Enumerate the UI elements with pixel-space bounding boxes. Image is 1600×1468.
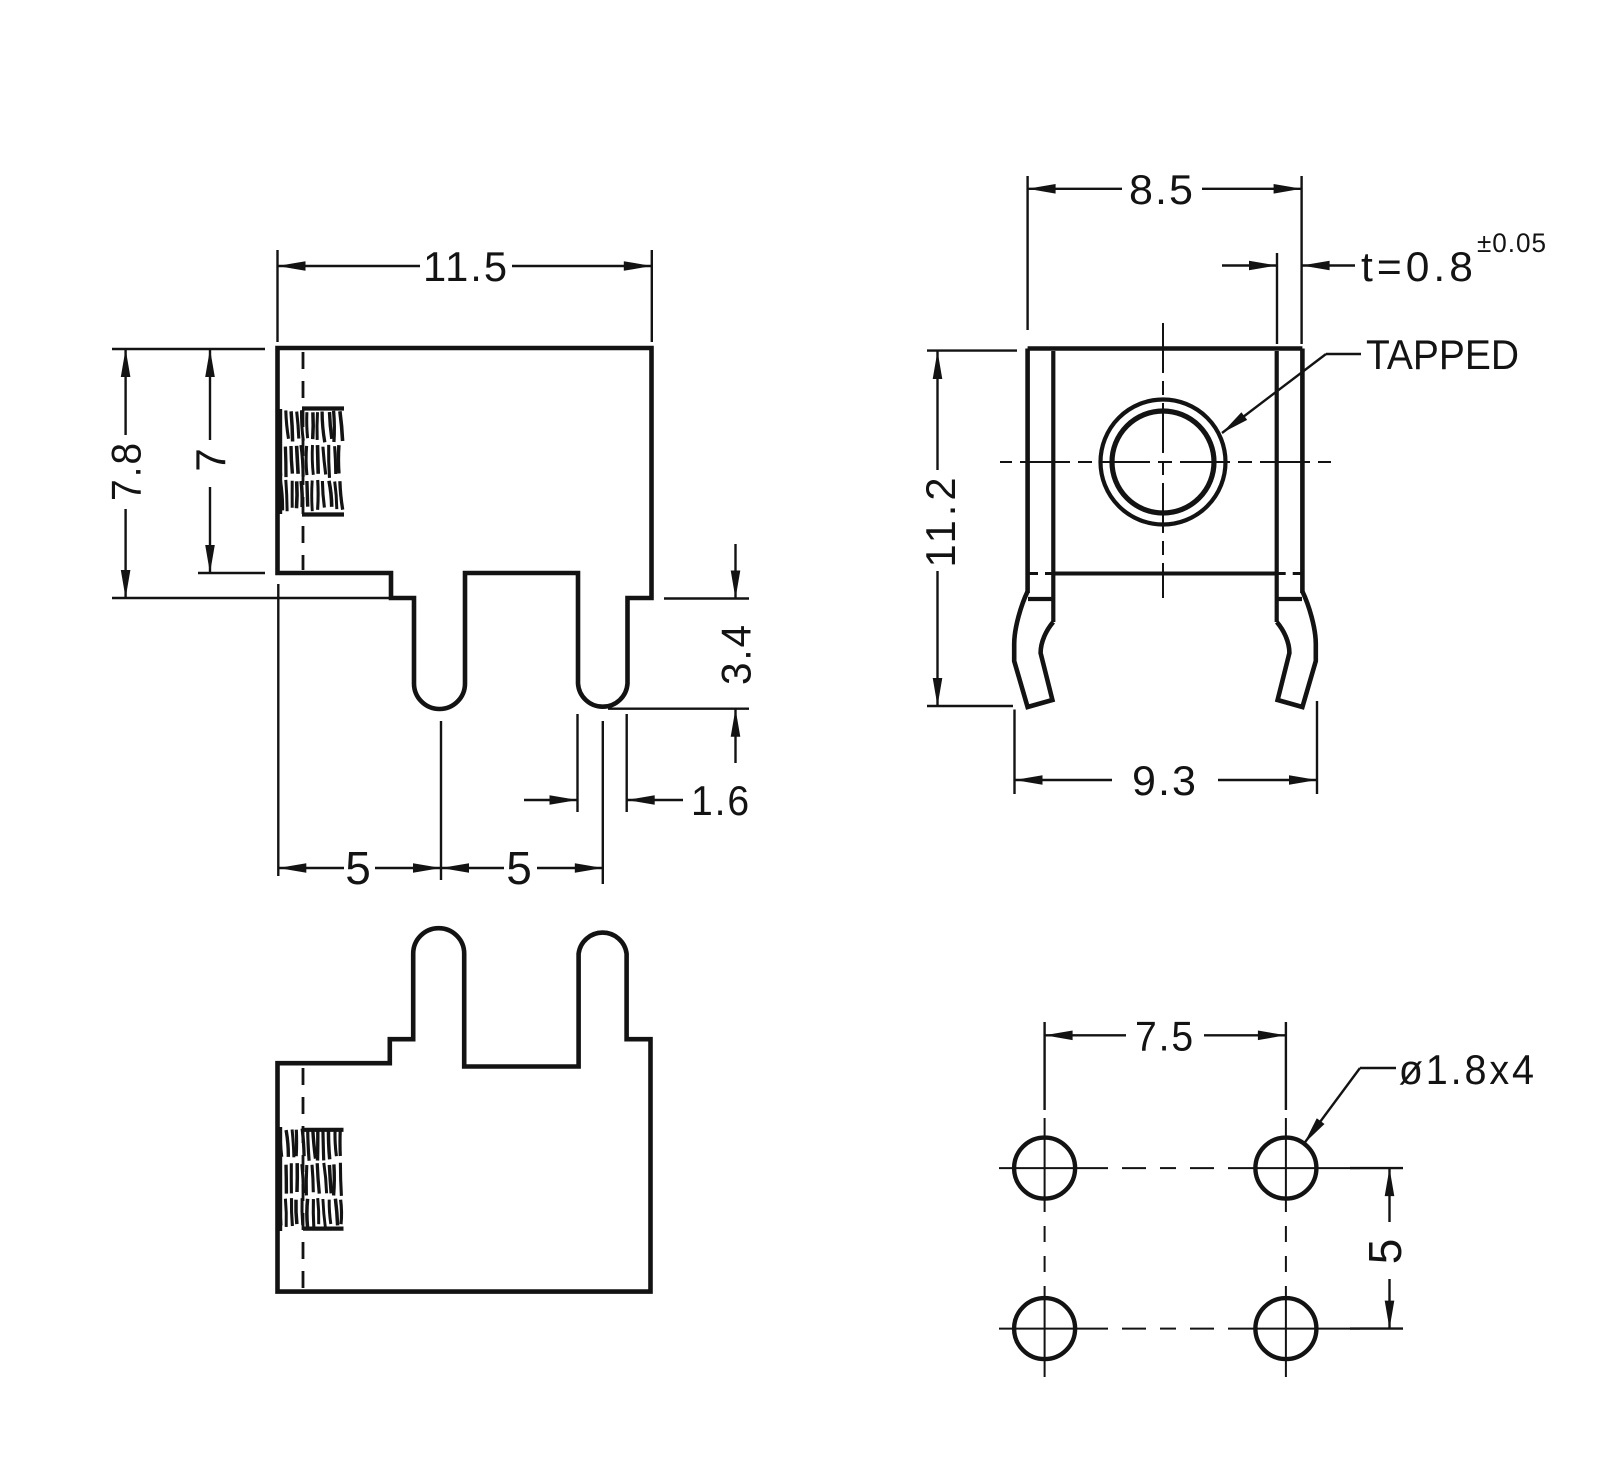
svg-text:5: 5 xyxy=(506,842,534,894)
svg-text:7.8: 7.8 xyxy=(103,441,150,501)
svg-text:11.5: 11.5 xyxy=(423,243,509,290)
svg-text:3.4: 3.4 xyxy=(713,623,760,685)
svg-text:t=0.8: t=0.8 xyxy=(1361,243,1477,290)
svg-text:9.3: 9.3 xyxy=(1132,757,1198,804)
svg-text:8.5: 8.5 xyxy=(1129,166,1195,213)
svg-text:TAPPED: TAPPED xyxy=(1366,331,1519,378)
svg-text:11.2: 11.2 xyxy=(917,474,964,568)
svg-text:±0.05: ±0.05 xyxy=(1477,228,1547,258)
svg-text:7.5: 7.5 xyxy=(1135,1013,1195,1060)
svg-text:1.6: 1.6 xyxy=(691,777,751,824)
svg-text:5: 5 xyxy=(1359,1237,1411,1265)
svg-text:5: 5 xyxy=(345,842,373,894)
svg-text:ø1.8x4: ø1.8x4 xyxy=(1399,1046,1537,1093)
svg-text:7: 7 xyxy=(187,446,234,471)
